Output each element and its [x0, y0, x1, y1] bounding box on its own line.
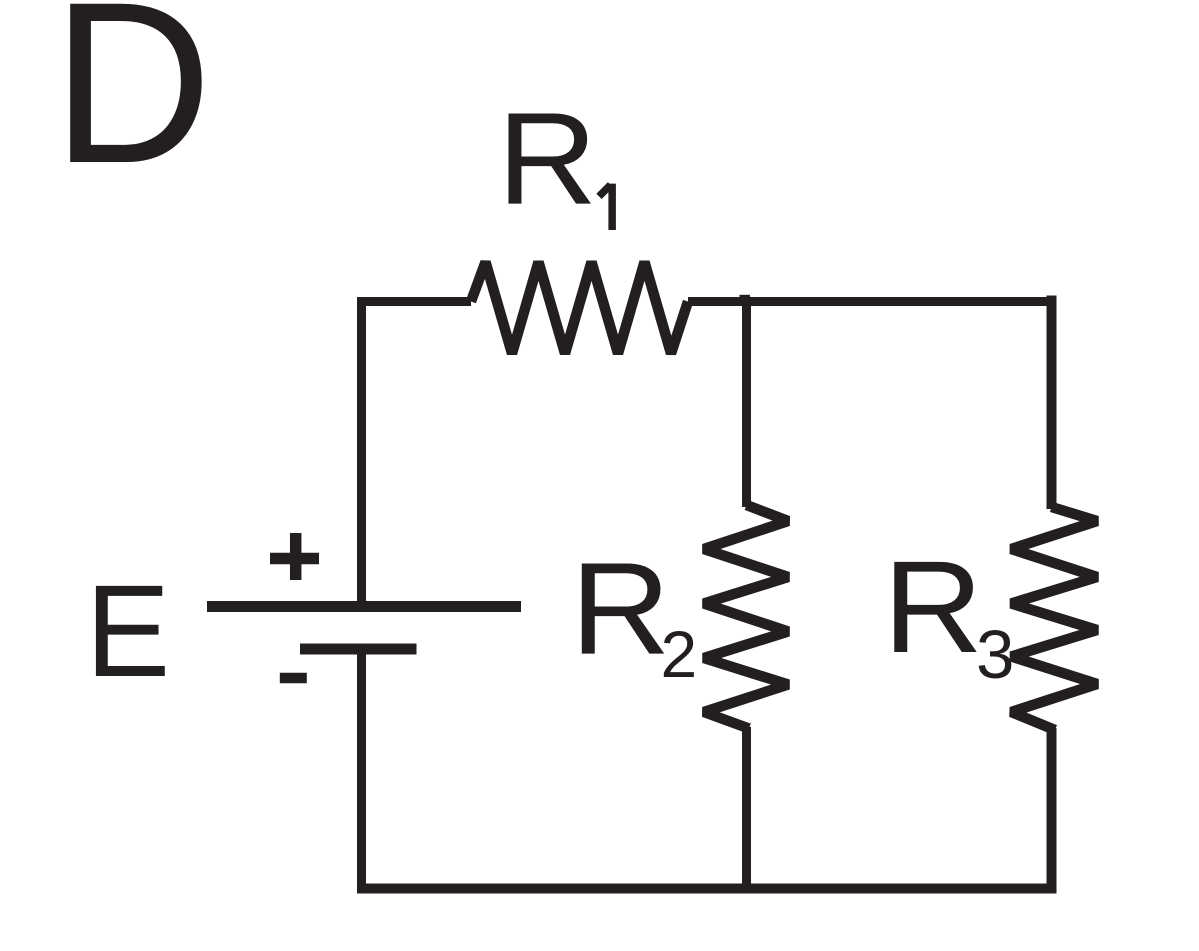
- wire right side (top-right corner down to R3): [1047, 296, 1057, 510]
- svg-text:R: R: [883, 534, 983, 681]
- svg-text:D: D: [52, 0, 212, 211]
- resistor R1: [471, 262, 688, 354]
- resistor R3: [1011, 507, 1097, 730]
- wire R3 bottom lead: [1047, 728, 1057, 893]
- svg-text:R: R: [570, 535, 670, 682]
- svg-text:3: 3: [976, 616, 1014, 693]
- svg-text:R: R: [497, 85, 597, 232]
- resistor R2: [704, 505, 788, 729]
- wire R2 bottom lead: [742, 727, 751, 893]
- battery E plus sign: [270, 533, 319, 580]
- wire top rail right segment (R1 to top-right corner): [688, 297, 1057, 306]
- wire battery positive up left side to top-left corner and to R1: [362, 302, 472, 607]
- svg-text:E: E: [86, 558, 171, 704]
- wire battery negative down to bottom-left corner: [357, 649, 366, 893]
- junction node above R2: [740, 295, 751, 303]
- battery E minus sign: [280, 673, 307, 683]
- wire bottom rail: [357, 884, 1057, 894]
- battery E positive plate: [207, 601, 521, 612]
- svg-text:2: 2: [661, 617, 698, 691]
- wire R2 top lead: [742, 302, 751, 508]
- battery E negative plate: [300, 644, 417, 655]
